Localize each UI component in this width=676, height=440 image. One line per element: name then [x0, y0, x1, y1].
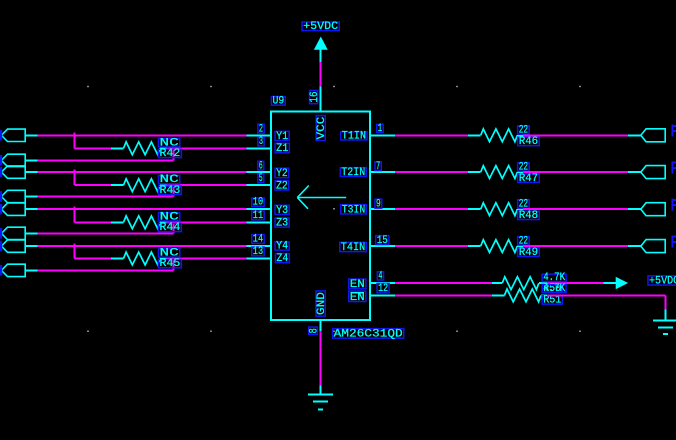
pin 3 (Z1) — [246, 147, 272, 149]
pin 9 (T3IN) — [369, 208, 395, 210]
clipped net label F... (right edge) row 4 — [673, 236, 676, 248]
pin 2 (Y1) — [246, 134, 272, 136]
wire Z2 port net — [38, 196, 174, 198]
wire VCC top — [320, 62, 322, 87]
wire Z3 port net — [38, 232, 174, 234]
pin name GND — [316, 291, 325, 316]
wire T2IN net — [395, 171, 468, 173]
svg-text:4: 4 — [378, 270, 382, 282]
svg-text:R44: R44 — [160, 222, 181, 234]
clipped net label (left edge) Z1 — [0, 155, 2, 166]
svg-text:2: 2 — [259, 124, 263, 136]
clipped net label (left edge) Z4 — [0, 265, 2, 276]
svg-text:1: 1 — [378, 123, 383, 135]
svg-text:T2IN: T2IN — [341, 167, 365, 179]
clipped net label (left edge) Y4 — [0, 241, 2, 252]
direction arrow inside U9 — [297, 186, 346, 209]
ref label R49 — [518, 248, 540, 256]
pin 8 GND — [320, 319, 322, 331]
svg-text:16: 16 — [309, 92, 321, 103]
svg-text:Y1: Y1 — [276, 131, 288, 143]
svg-text:EN: EN — [350, 279, 365, 291]
port connector Y3 (left) — [1, 203, 25, 215]
power symbol +5VDC (right) — [603, 282, 616, 284]
ref label R50 — [542, 285, 562, 293]
port connector Y4 (left) — [1, 240, 25, 252]
wire to right port 1 — [523, 134, 628, 136]
port connector (right) row 4 — [641, 240, 665, 253]
ref label R51 — [542, 296, 562, 305]
svg-text:Y2: Y2 — [276, 168, 288, 180]
value label NC (R45) — [158, 249, 179, 257]
wire T3IN net — [395, 208, 468, 210]
pin 15 (T4IN) — [369, 245, 395, 247]
op-amp/driver IC U9 AM26C31QD body — [271, 111, 370, 320]
pin 14 (Y4) — [246, 245, 272, 247]
ref label R45 — [158, 260, 181, 268]
wire junction tap to R44 — [73, 207, 75, 223]
value label 22 (R46) — [518, 126, 530, 134]
wire Z4 vertical jog — [173, 259, 175, 271]
svg-text:R47: R47 — [519, 173, 539, 185]
svg-text:+5VDC: +5VDC — [303, 21, 339, 33]
pin 5 (Z2) — [246, 184, 272, 186]
value label 22 (R49) — [518, 237, 530, 245]
resistor R47 (22) — [468, 171, 481, 173]
wire Z1 vertical jog — [173, 148, 175, 160]
resistor R50 (4.7K) — [492, 282, 502, 284]
svg-text:4.7K: 4.7K — [543, 283, 565, 295]
svg-text:R46: R46 — [519, 136, 539, 148]
pin 16 VCC — [320, 87, 322, 112]
value label 4.7K (R50) — [542, 274, 566, 281]
svg-text:9: 9 — [376, 199, 381, 211]
svg-text:13: 13 — [253, 246, 263, 258]
clipped net label (left edge) Y3 — [0, 204, 2, 215]
wire EN-bar to ground — [547, 294, 666, 296]
svg-text:T1IN: T1IN — [342, 130, 366, 142]
svg-text:EN: EN — [350, 292, 365, 304]
wire EN to +5VDC — [547, 282, 603, 284]
resistor R44 (NC) — [111, 221, 124, 223]
value label 22 (R47) — [518, 163, 530, 171]
resistor R45 (NC) — [111, 258, 124, 260]
wire to right port 4 — [523, 245, 628, 247]
svg-text:R43: R43 — [160, 185, 181, 197]
svg-text:5: 5 — [259, 173, 263, 185]
wire T4IN net — [395, 245, 468, 247]
port connector Z3 (left) — [1, 227, 25, 239]
svg-text:10: 10 — [253, 197, 263, 209]
svg-text:3: 3 — [259, 136, 263, 148]
wire Y3 net — [38, 208, 247, 210]
svg-text:11: 11 — [253, 210, 264, 222]
svg-text:VCC: VCC — [316, 116, 328, 139]
svg-text:Z2: Z2 — [276, 180, 288, 192]
svg-text:7: 7 — [376, 161, 380, 173]
pin 4 (EN) — [369, 282, 395, 284]
pin 12 (EN-bar) — [369, 294, 395, 296]
wire Z2 vertical jog — [173, 185, 175, 196]
power symbol +5VDC (top) — [314, 37, 328, 50]
port connector Z1 (left) — [1, 154, 25, 166]
ground (EN-bar pulldown) — [665, 310, 667, 321]
svg-text:15: 15 — [377, 235, 388, 247]
resistor R43 (NC) — [111, 184, 124, 186]
wire Y1 net — [38, 134, 247, 136]
svg-text:T3IN: T3IN — [342, 204, 365, 216]
ref label R47 — [518, 174, 540, 182]
resistor R51 (4.7K) — [492, 294, 504, 296]
clipped net label (left edge) Y1 — [0, 130, 2, 141]
ref label R42 — [158, 149, 181, 157]
wire Z3 net to pin — [167, 221, 247, 223]
wire Z4 net to pin — [167, 258, 247, 260]
wire to right port 3 — [523, 208, 628, 210]
wire T1IN net — [395, 134, 468, 136]
ground (U9 pin 8) — [320, 386, 322, 395]
svg-text:Z3: Z3 — [276, 218, 288, 230]
svg-text:AM26C31QD: AM26C31QD — [334, 329, 404, 341]
clipped net label (left edge) Z3 — [0, 228, 2, 239]
ref label R43 — [158, 186, 181, 194]
pin 13 (Z4) — [246, 258, 272, 260]
svg-text:U9: U9 — [273, 96, 285, 108]
wire Z4 port net — [38, 269, 174, 271]
svg-text:GND: GND — [316, 292, 328, 316]
value label NC (R44) — [158, 213, 179, 221]
part value AM26C31QD — [333, 329, 404, 338]
svg-text:Z1: Z1 — [276, 143, 289, 155]
svg-text:14: 14 — [253, 234, 264, 246]
wire Z1 net to pin — [167, 147, 247, 149]
value label 4.7K (R51) overlapping — [542, 285, 566, 293]
resistor R49 (22) — [468, 245, 481, 247]
value label 22 (R48) — [518, 200, 530, 208]
svg-text:8: 8 — [309, 328, 321, 333]
svg-text:T4IN: T4IN — [341, 242, 365, 254]
ref label R46 — [518, 137, 540, 145]
pin 1 (T1IN) — [369, 134, 395, 136]
wire Y2 net — [38, 171, 247, 173]
svg-text:6: 6 — [259, 160, 263, 172]
port connector (right) row 2 — [641, 166, 665, 179]
clipped net label (left edge) Z2 — [0, 191, 2, 202]
clipped net label (left edge) Y2 — [0, 167, 2, 178]
value label NC (R43) — [158, 176, 179, 184]
resistor R42 (NC) — [111, 147, 124, 149]
designator U9 — [271, 97, 285, 106]
svg-text:R48: R48 — [519, 210, 539, 222]
pin name VCC — [316, 116, 325, 141]
wire junction tap to R43 — [73, 169, 75, 185]
clipped net label F... (right edge) row 3 — [673, 199, 676, 211]
port connector Y2 (left) — [1, 166, 25, 178]
port connector (right) row 3 — [641, 203, 665, 216]
svg-text:R49: R49 — [519, 247, 539, 259]
port connector Z4 (left) — [1, 264, 25, 276]
svg-text:Y4: Y4 — [276, 241, 288, 253]
wire R44 input — [74, 221, 111, 223]
wire junction tap to R42 — [73, 133, 75, 149]
svg-text:Z4: Z4 — [277, 253, 289, 265]
port connector (right) row 1 — [641, 129, 665, 142]
wire R45 input — [74, 258, 111, 260]
resistor R46 (22) — [468, 134, 481, 136]
port connector Z2 (left) — [1, 190, 25, 202]
svg-text:R45: R45 — [160, 258, 181, 270]
wire GND bottom — [320, 331, 322, 386]
svg-text:R42: R42 — [160, 148, 181, 160]
wire Y4 net — [38, 245, 247, 247]
ref label R48 — [518, 211, 540, 219]
wire Z3 vertical jog — [173, 222, 175, 233]
pin 7 (T2IN) — [369, 171, 395, 173]
svg-text:12: 12 — [378, 283, 388, 295]
wire EN-bar (pin 12) — [395, 294, 492, 296]
clipped net label F... (right edge) row 2 — [673, 162, 676, 174]
ref label R44 — [158, 223, 181, 231]
resistor R48 (22) — [468, 208, 481, 210]
wire to right port 2 — [523, 171, 628, 173]
clipped net label F... (right edge) row 1 — [673, 125, 676, 137]
wire Z2 net to pin — [167, 184, 247, 186]
pin 10 (Y3) — [246, 208, 272, 210]
port connector Y1 (left) — [1, 129, 25, 141]
pin 11 (Z3) — [246, 221, 272, 223]
wire EN (pin 4) — [395, 282, 492, 284]
wire R42 input — [74, 147, 111, 149]
svg-text:Y3: Y3 — [276, 205, 288, 217]
wire R43 input — [74, 184, 111, 186]
value label NC (R42) — [158, 139, 179, 147]
wire Z1 port net — [38, 159, 174, 161]
pin 6 (Y2) — [246, 171, 272, 173]
wire junction tap to R45 — [73, 243, 75, 258]
svg-text:+5VDC: +5VDC — [649, 275, 676, 287]
